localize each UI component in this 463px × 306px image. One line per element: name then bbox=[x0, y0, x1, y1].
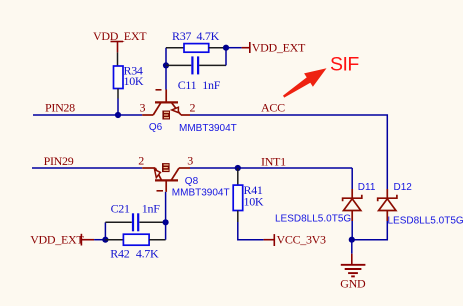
power port VDD_EXT bottom-left bbox=[30, 233, 94, 247]
svg-text:VDD_EXT: VDD_EXT bbox=[30, 233, 84, 247]
junction dot right of C21 bbox=[163, 219, 169, 225]
transistor Q8 bbox=[138, 154, 229, 199]
svg-text:GND: GND bbox=[340, 277, 366, 291]
svg-text:1nF: 1nF bbox=[142, 201, 160, 215]
svg-text:10K: 10K bbox=[244, 194, 264, 208]
power port VDD_EXT top-left bbox=[93, 29, 147, 52]
wire: R34 to PIN28 net bbox=[117, 99, 119, 116]
svg-text:INT1: INT1 bbox=[261, 154, 286, 168]
wire: base of Q6 up to RC network bbox=[165, 65, 167, 89]
wire ACC bbox=[190, 115, 387, 189]
resistor R37 bbox=[166, 29, 226, 52]
svg-text:ACC: ACC bbox=[261, 100, 285, 114]
wire: left vertical C21 loop bbox=[104, 222, 106, 239]
pin 3 stub bbox=[142, 114, 153, 116]
wire R41 to VCC_3V3 bbox=[238, 222, 264, 240]
svg-text:MMBT3904T: MMBT3904T bbox=[179, 123, 237, 134]
wire: right vertical of RC loop bbox=[225, 48, 227, 66]
wire VDD_EXT to R42 bbox=[94, 239, 105, 241]
pin designator box E bbox=[162, 111, 170, 120]
diode D11 bbox=[275, 168, 376, 225]
svg-text:3: 3 bbox=[140, 100, 146, 114]
emitter arrow bbox=[155, 170, 161, 178]
svg-text:R42: R42 bbox=[110, 246, 129, 260]
diode D12 bbox=[378, 182, 463, 226]
svg-text:D11: D11 bbox=[358, 182, 376, 193]
wire: left vertical of RC loop bbox=[165, 48, 167, 66]
transistor Q6 bbox=[140, 90, 237, 134]
ground GND bbox=[340, 240, 366, 291]
svg-text:Q6: Q6 bbox=[149, 122, 163, 133]
wire: Q8 base down to C21/R42 bbox=[165, 192, 167, 240]
svg-text:PIN29: PIN29 bbox=[44, 154, 74, 168]
svg-text:Q8: Q8 bbox=[185, 176, 199, 187]
junction dot at Q6 base bbox=[163, 62, 169, 68]
svg-text:MMBT3904T: MMBT3904T bbox=[172, 188, 230, 199]
svg-text:LESD8LL5.0T5G: LESD8LL5.0T5G bbox=[388, 215, 463, 226]
emitter arrow bbox=[172, 107, 179, 112]
wire PIN29 bbox=[32, 167, 142, 169]
svg-text:VCC_3V3: VCC_3V3 bbox=[277, 233, 327, 247]
resistor R41 bbox=[233, 168, 264, 222]
capacitor C21 bbox=[105, 201, 165, 231]
anode triangle bbox=[379, 199, 396, 211]
junction dot left of R42 bbox=[102, 237, 108, 243]
cathode bar with zener wings bbox=[343, 195, 362, 202]
svg-text:1nF: 1nF bbox=[202, 78, 220, 92]
left leg bbox=[155, 168, 161, 180]
svg-text:4.7K: 4.7K bbox=[136, 246, 159, 260]
annotation arrow SIF bbox=[283, 53, 359, 97]
dash mark bbox=[156, 89, 162, 91]
svg-text:R37 4.7K: R37 4.7K bbox=[172, 29, 220, 43]
svg-text:LESD8LL5.0T5G: LESD8LL5.0T5G bbox=[275, 214, 351, 225]
junction dot on PIN28 wire bbox=[115, 112, 121, 118]
svg-text:SIF: SIF bbox=[330, 53, 359, 75]
left leg bbox=[153, 102, 161, 115]
svg-text:C11: C11 bbox=[178, 78, 197, 92]
svg-text:VDD_EXT: VDD_EXT bbox=[252, 41, 306, 55]
cathode bar with zener wings bbox=[378, 195, 397, 202]
base bar bbox=[155, 179, 178, 181]
junction dot R41 top bbox=[235, 165, 241, 171]
dash mark bbox=[157, 190, 164, 192]
svg-text:2: 2 bbox=[138, 154, 144, 168]
junction dot GND node bbox=[349, 237, 355, 243]
pin 2 stub bbox=[142, 167, 155, 169]
base pin bbox=[165, 180, 167, 192]
right leg bbox=[171, 168, 179, 180]
resistor R42 bbox=[105, 234, 165, 260]
svg-text:C21: C21 bbox=[111, 201, 130, 215]
capacitor C11 bbox=[166, 56, 226, 91]
base bar bbox=[155, 101, 178, 103]
wire INT1 corner down bbox=[351, 168, 353, 189]
pin 3 stub bbox=[179, 167, 190, 169]
anode triangle bbox=[344, 199, 361, 211]
svg-text:10K: 10K bbox=[124, 74, 144, 88]
power port VDD_EXT top-right bbox=[242, 41, 306, 55]
resistor R34 bbox=[114, 64, 144, 99]
wire D12 bottom to GND node bbox=[352, 221, 387, 240]
svg-text:PIN28: PIN28 bbox=[45, 100, 75, 114]
power port VCC_3V3 bbox=[264, 233, 326, 247]
pin designator box B bbox=[162, 163, 170, 172]
svg-text:D12: D12 bbox=[394, 182, 413, 193]
wire to VDD_EXT right bbox=[226, 47, 242, 49]
right leg bbox=[171, 102, 181, 115]
wire D11 to GND node bbox=[351, 221, 353, 240]
wire PIN28 bbox=[33, 114, 142, 116]
pin 2 stub bbox=[181, 114, 190, 116]
svg-text:2: 2 bbox=[190, 101, 196, 115]
junction dot top right of R37 bbox=[223, 45, 229, 51]
svg-text:3: 3 bbox=[187, 154, 193, 168]
wire: VDD_EXT to R34 bbox=[117, 52, 119, 66]
base pin bbox=[165, 90, 167, 103]
wire INT1 row bbox=[190, 167, 352, 169]
